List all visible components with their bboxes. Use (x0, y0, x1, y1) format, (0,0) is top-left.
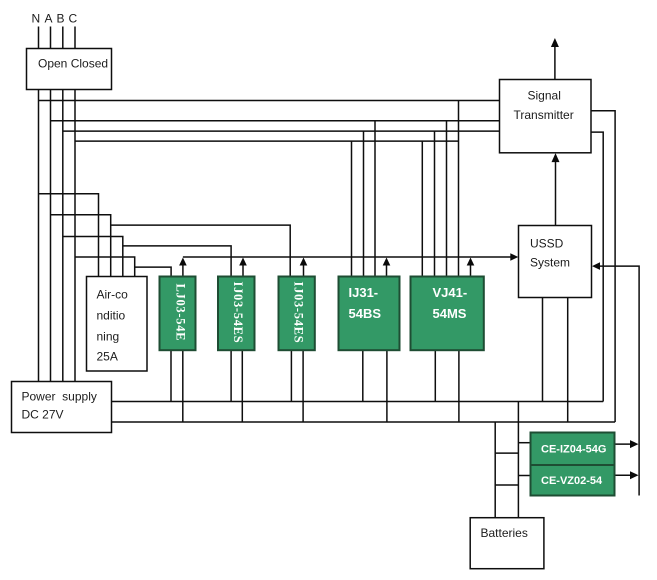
wire green box2 bottom left to bus1 (230, 350, 232, 401)
module LJ03-54E (160, 277, 196, 351)
arrow into USSD System left (510, 253, 518, 261)
wire green box1 bottom left to bus1 (170, 350, 172, 401)
wire Signal Transmitter right out2 down to bus1 (591, 132, 603, 401)
wire rung 1 between battery columns (495, 452, 518, 454)
wire branch to green box 2 (123, 246, 231, 277)
wire rung 2 between battery columns (495, 484, 518, 486)
svg-text:IJ31-: IJ31- (349, 285, 379, 300)
module IJ03-54ES no.2 (279, 277, 315, 351)
wire staircase H2 from A (51, 215, 111, 277)
arrow up from LJ03-54E (182, 264, 184, 277)
wire green box1 bottom right to bus2 (182, 350, 184, 422)
wire bus A horizontal y=100 to Signal Transmitter (39, 100, 500, 102)
svg-text:CE-VZ02-54: CE-VZ02-54 (541, 475, 603, 487)
power supply box DC 27V (12, 382, 112, 433)
wire drop busD to IJ31-54BS (351, 141, 353, 276)
wire staircase H1 from N (39, 194, 99, 277)
svg-text:Signal: Signal (528, 89, 561, 103)
wire feed to CE-VZ02-54 (518, 475, 530, 477)
wire USSD bottom left to bus1 (542, 298, 544, 402)
svg-text:Power supply: Power supply (22, 390, 97, 404)
wire bus D horizontal y=141 (75, 140, 459, 142)
svg-text:Batteries: Batteries (481, 526, 528, 540)
wire green box5 bottom left to bus1 (434, 350, 436, 401)
wire bus C horizontal y=131 (63, 130, 500, 132)
module CE-VZ02-54 (531, 465, 615, 496)
arrow USSD System to Signal Transmitter (555, 160, 557, 226)
svg-text:N: N (32, 12, 41, 26)
wire green box2 bottom right to bus2 (241, 350, 243, 422)
switch box Open Closed (27, 49, 112, 90)
wire green box3 bottom left to bus1 (290, 350, 292, 401)
batteries box (470, 518, 544, 569)
svg-text:nditio: nditio (97, 309, 126, 323)
svg-text:ning: ning (97, 330, 120, 344)
svg-text:System: System (530, 256, 570, 270)
svg-text:C: C (69, 12, 78, 26)
wire green box3 bottom right to bus2 (302, 350, 304, 422)
wire drop busA to VJ41-54MS (458, 101, 460, 277)
svg-text:Open Closed: Open Closed (38, 57, 108, 71)
svg-text:DC 27V: DC 27V (22, 408, 64, 422)
wire drop busB to VJ41-54MS (446, 121, 448, 277)
wire green box4 bottom right to bus2 (386, 350, 388, 422)
wire drop busC to IJ31-54BS (363, 131, 365, 276)
wire drop busC to VJ41-54MS (434, 131, 436, 276)
module IJ03-54ES no.1 (218, 277, 255, 351)
wire drop busB to IJ31-54BS (374, 121, 376, 277)
wire Signal Transmitter right out1 down to bus2 (591, 111, 615, 422)
svg-text:Air-co: Air-co (97, 288, 129, 302)
svg-text:USSD: USSD (530, 237, 564, 251)
svg-text:IJ03-54ES: IJ03-54ES (291, 282, 305, 344)
wire N vertical from label N down through Open Closed to Power supply (38, 27, 40, 382)
arrow out of CE-IZ04-54G right (615, 443, 632, 445)
module CE-IZ04-54G (531, 433, 615, 466)
arrow up out of Signal Transmitter top (554, 45, 556, 80)
wire CE column from bus1 down to Batteries (517, 402, 519, 518)
svg-text:LJ03-54E: LJ03-54E (174, 284, 188, 342)
wire USSD bottom right to bus2 (567, 298, 569, 423)
arrow up from IJ31-54BS (386, 264, 388, 277)
wire green box4 bottom left to bus1 (362, 350, 364, 401)
arrow up from IJ03-54ES first (242, 264, 244, 277)
wire signal bus from modules to USSD System (183, 256, 512, 258)
USSD system box (519, 226, 592, 298)
wire branch to green box 1 (135, 267, 171, 276)
air conditioning load box (87, 277, 148, 372)
svg-text:IJ03-54ES: IJ03-54ES (231, 282, 245, 344)
arrow up from IJ03-54ES second (303, 264, 305, 277)
wire branch to green box 3 (111, 225, 291, 276)
wire right feedback vertical with arrow into USSD right (600, 266, 640, 495)
svg-text:VJ41-: VJ41- (433, 285, 468, 300)
svg-text:B: B (57, 12, 65, 26)
signal transmitter box (500, 80, 592, 153)
svg-text:CE-IZ04-54G: CE-IZ04-54G (541, 444, 606, 456)
svg-text:A: A (45, 12, 53, 26)
svg-text:25A: 25A (97, 350, 118, 364)
wire staircase H3 from B (63, 237, 123, 277)
wire power bus1 horizontal (112, 401, 604, 403)
arrow up from VJ41-54MS (470, 264, 472, 277)
svg-text:54MS: 54MS (433, 306, 467, 321)
wire feed to CE-IZ04-54G (518, 442, 530, 444)
wire staircase H4 from C (75, 257, 135, 277)
svg-text:54BS: 54BS (349, 306, 382, 321)
wire drop busD to VJ41-54MS (421, 141, 423, 276)
module VJ41-54MS (411, 277, 484, 351)
svg-text:Transmitter: Transmitter (514, 108, 574, 122)
wire bus B horizontal y=120 (51, 120, 500, 122)
wire green box5 bottom right to bus2 (458, 350, 460, 422)
wire battery column from bus2 down to Batteries (494, 422, 496, 518)
wire power bus2 horizontal (112, 421, 616, 423)
arrow out of CE-VZ02-54 right (615, 474, 632, 476)
wire B vertical (62, 27, 64, 382)
wire A vertical (50, 27, 52, 382)
wire C vertical (74, 27, 76, 382)
module IJ31-54BS (339, 277, 400, 351)
